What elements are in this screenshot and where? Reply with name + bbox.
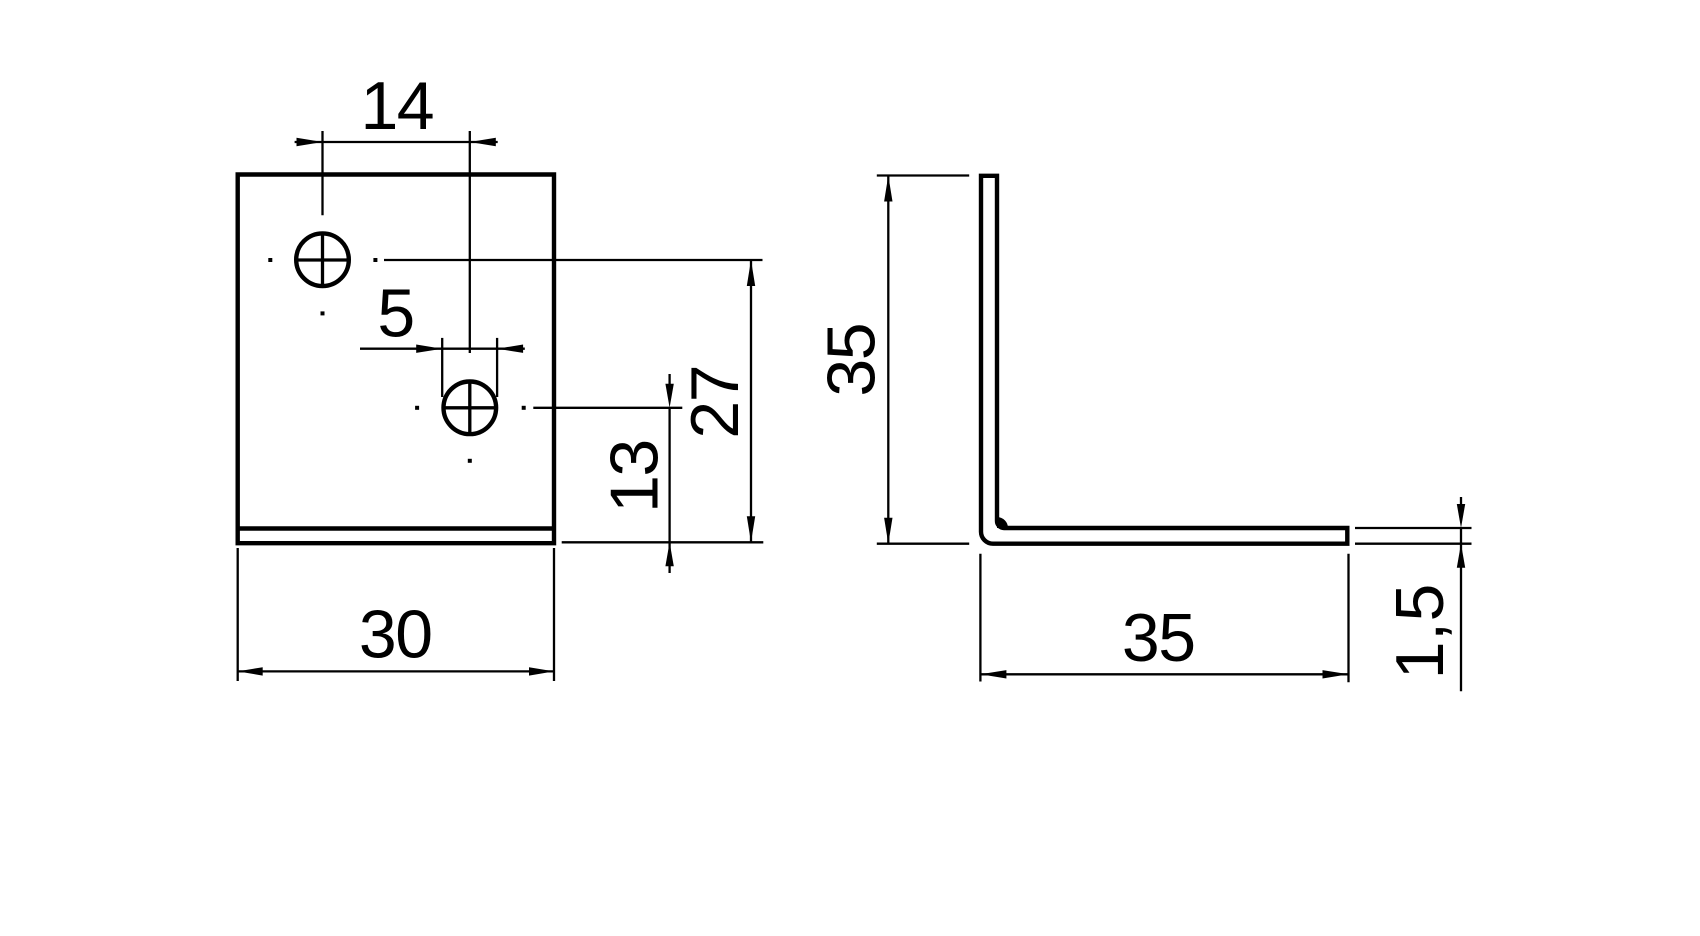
ext line right tangent bbox=[496, 338, 498, 397]
ext line bottom 27 bbox=[562, 541, 764, 543]
arrowheads 30 bbox=[238, 667, 554, 675]
dim line 27 bbox=[750, 260, 752, 542]
dimension 35 vertical bbox=[877, 176, 969, 544]
ext line right 35h bbox=[1347, 554, 1349, 683]
H2 horizontal centerline bbox=[444, 406, 496, 409]
dim line 30 bbox=[238, 670, 554, 672]
hole H2 bbox=[444, 382, 497, 435]
ext line top (H1 axis right) bbox=[384, 259, 763, 261]
ext line left 35h bbox=[979, 554, 981, 682]
arrow tails 1,5 bbox=[1460, 497, 1462, 506]
svg-text:30: 30 bbox=[359, 597, 432, 673]
svg-text:27: 27 bbox=[677, 366, 753, 439]
L-profile outline bbox=[981, 176, 1347, 544]
dim line 14 bbox=[323, 141, 470, 143]
dimension 27 bbox=[384, 260, 763, 542]
H1 vertical centerline bbox=[321, 232, 324, 287]
ext line top 35v bbox=[877, 174, 969, 176]
svg-text:5: 5 bbox=[377, 275, 413, 351]
H1 horizontal centerline bbox=[297, 258, 349, 261]
dim line 1,5 bbox=[1460, 528, 1462, 544]
ext line bottom 35v bbox=[877, 543, 969, 545]
ext line right (H2 axis up) bbox=[469, 131, 471, 353]
dim line 13 bbox=[668, 408, 670, 543]
dim line 35v bbox=[887, 176, 889, 544]
ext line right 30 bbox=[553, 548, 555, 681]
dim line 35h bbox=[980, 673, 1348, 675]
arrowheads 27 bbox=[747, 260, 755, 542]
dimension 1,5 bbox=[1355, 497, 1472, 691]
label 1,5 bbox=[1382, 583, 1458, 679]
arrowheads 1,5 bbox=[1457, 504, 1465, 568]
arrow tails 14 bbox=[295, 141, 323, 143]
dimension 30 bbox=[238, 548, 554, 681]
arrowheads 35h bbox=[980, 670, 1348, 678]
label 35 vertical bbox=[814, 324, 890, 397]
ext line bottom 1,5 bbox=[1355, 543, 1472, 545]
svg-text:35: 35 bbox=[1122, 600, 1195, 676]
dimension 13 bbox=[533, 374, 682, 573]
label 27 bbox=[677, 366, 753, 439]
arrowheads 13 bbox=[665, 384, 673, 567]
svg-text:13: 13 bbox=[597, 440, 673, 513]
svg-text:14: 14 bbox=[360, 68, 433, 144]
ext line top 1,5 bbox=[1355, 527, 1472, 529]
H2 vertical centerline bbox=[468, 382, 471, 435]
label 13 bbox=[597, 440, 673, 513]
arrowheads 14 bbox=[297, 138, 496, 146]
arrowheads 5 bbox=[416, 345, 523, 353]
bend tangent line bbox=[238, 526, 554, 530]
arrowheads 35v bbox=[884, 176, 892, 544]
bend corner fill bbox=[997, 517, 1008, 528]
hole H1 bbox=[296, 233, 349, 286]
dim line 5 bbox=[442, 348, 497, 350]
dimension 35 horizontal bbox=[980, 554, 1348, 683]
svg-text:1,5: 1,5 bbox=[1382, 583, 1458, 679]
svg-text:35: 35 bbox=[814, 324, 890, 397]
dimension 5 bbox=[360, 338, 525, 397]
arrow tails 13 bbox=[668, 374, 670, 388]
ext line left tangent bbox=[441, 338, 443, 397]
ext line left (H1 axis up) bbox=[321, 131, 323, 215]
plate outline bbox=[238, 175, 554, 544]
centerline dots bbox=[268, 258, 525, 463]
arrow tails 5 bbox=[360, 348, 442, 350]
centerlines hole H1 bbox=[297, 232, 496, 435]
ext line top (H2 axis right) bbox=[533, 407, 682, 409]
dimension 14 bbox=[295, 131, 498, 353]
ext line left 30 bbox=[237, 548, 239, 681]
